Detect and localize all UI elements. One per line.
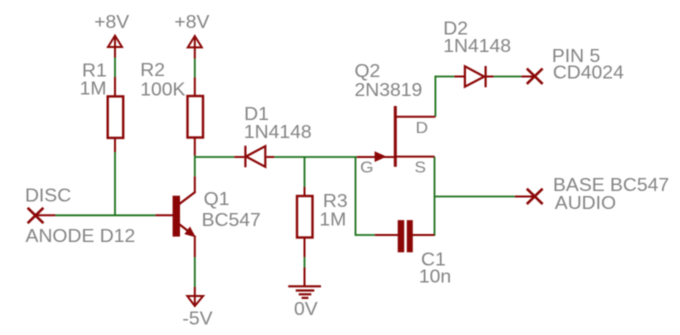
svg-text:G: G — [360, 160, 373, 177]
svg-text:R1: R1 — [82, 60, 107, 80]
wire: C1 loop bottom left — [356, 234, 375, 236]
pin: R2 bottom — [194, 138, 196, 156]
pin: Q2 gate shaft — [357, 156, 396, 158]
wire: DISC horizontal — [55, 214, 155, 216]
svg-text:-5V: -5V — [182, 308, 212, 328]
transistor Q1 emitter stroke — [179, 224, 194, 235]
terminal X: BASE BC547 AUDIO — [527, 189, 543, 204]
pin: C1 left — [375, 234, 398, 236]
wire: R1 bottom to DISC node — [114, 152, 116, 216]
svg-text:R3: R3 — [323, 191, 348, 211]
wire: D2 to PIN5 X — [494, 76, 522, 78]
transistor Q1 emitter arrowhead — [185, 227, 195, 236]
svg-text:Q2: Q2 — [354, 61, 380, 81]
wire: Q1 emitter to -5V — [194, 257, 196, 287]
pin: R1 top — [114, 77, 116, 96]
pin: PIN5 terminal — [521, 76, 534, 78]
capacitor C1 left plate — [398, 220, 405, 252]
transistor Q2 channel bar — [394, 106, 397, 167]
svg-text:100K: 100K — [140, 80, 185, 100]
wire: R3 top lead — [304, 157, 306, 187]
pin: Q2 source tap — [395, 156, 434, 158]
resistor R3 body — [297, 196, 313, 238]
wire: R2 top — [194, 59, 196, 78]
power symbol +8V (R2 branch) — [188, 36, 202, 47]
wire: R3 bottom segment — [304, 257, 306, 267]
svg-text:1M: 1M — [319, 210, 346, 230]
diode D2 cathode bar — [485, 66, 487, 87]
pin: Q1 emitter — [194, 236, 196, 258]
power symbol +8V (R1 branch) — [108, 36, 122, 47]
pin: Q1 collector — [194, 176, 196, 192]
svg-text:+8V: +8V — [174, 12, 209, 32]
svg-text:D: D — [416, 120, 428, 137]
transistor Q2 gate arrowhead — [375, 151, 387, 162]
svg-text:DISC: DISC — [25, 186, 71, 206]
diode D1 cathode bar — [244, 146, 246, 168]
wire: C1 loop left vertical — [355, 157, 357, 236]
resistor R1 body — [108, 96, 124, 137]
pin: Q2 drain tap — [395, 116, 435, 118]
pin: DISC terminal — [36, 214, 56, 216]
pin: R1 bottom — [114, 138, 116, 152]
pin: D2 anode — [454, 76, 465, 78]
svg-text:Q1: Q1 — [204, 189, 230, 209]
svg-text:CD4024: CD4024 — [553, 63, 624, 83]
diode D1 triangle — [246, 146, 265, 167]
pin: D1 anode — [234, 156, 244, 158]
pin: C1 right — [412, 234, 435, 236]
pin: D1 cathode — [266, 156, 274, 158]
wire: D node vertical — [434, 76, 436, 117]
pin: +8V 1 stem — [114, 35, 116, 57]
terminal X: PIN 5 CD4024 — [527, 69, 543, 84]
wire: node B to D1 — [195, 156, 235, 158]
wire: D1 to Q2 gate — [274, 156, 356, 158]
pin: R3 top — [304, 187, 306, 196]
terminal X: DISC / ANODE D12 — [28, 208, 44, 223]
power symbol -5V — [187, 296, 203, 306]
pin: -5V stem — [194, 287, 196, 305]
pin: R3 bottom — [304, 238, 306, 258]
svg-text:1M: 1M — [80, 79, 107, 99]
wire: R2 bottom to Q1 collector — [194, 156, 196, 177]
svg-text:S: S — [415, 160, 426, 177]
svg-text:+8V: +8V — [94, 12, 129, 32]
svg-text:ANODE D12: ANODE D12 — [26, 226, 136, 246]
capacitor C1 right plate — [407, 220, 413, 252]
svg-text:AUDIO: AUDIO — [555, 193, 616, 213]
wire: S node vertical — [434, 157, 436, 236]
svg-text:1N4148: 1N4148 — [443, 36, 511, 56]
wire: R1 top — [114, 58, 116, 78]
resistor R2 body — [188, 96, 204, 138]
svg-text:2N3819: 2N3819 — [354, 80, 422, 100]
ground symbol (0V) — [288, 286, 321, 298]
svg-text:1N4148: 1N4148 — [244, 122, 312, 142]
transistor Q1 collector stroke — [179, 192, 196, 205]
pin: Q1 base — [155, 214, 173, 216]
svg-text:10n: 10n — [419, 267, 451, 287]
pin: +8V 2 stem — [194, 36, 196, 58]
wire: S node to BASE X — [435, 196, 515, 198]
diode D2 triangle — [465, 66, 484, 86]
wire: D node to D2 — [435, 76, 455, 78]
svg-text:R2: R2 — [140, 60, 165, 80]
transistor Q1 base bar — [173, 196, 180, 237]
pin: ground stem — [304, 268, 306, 287]
pin: BASE terminal — [515, 196, 535, 198]
svg-text:BC547: BC547 — [202, 210, 261, 230]
svg-text:0V: 0V — [294, 299, 318, 319]
pin: R2 top — [194, 78, 196, 97]
pin: D2 cathode — [486, 76, 494, 78]
